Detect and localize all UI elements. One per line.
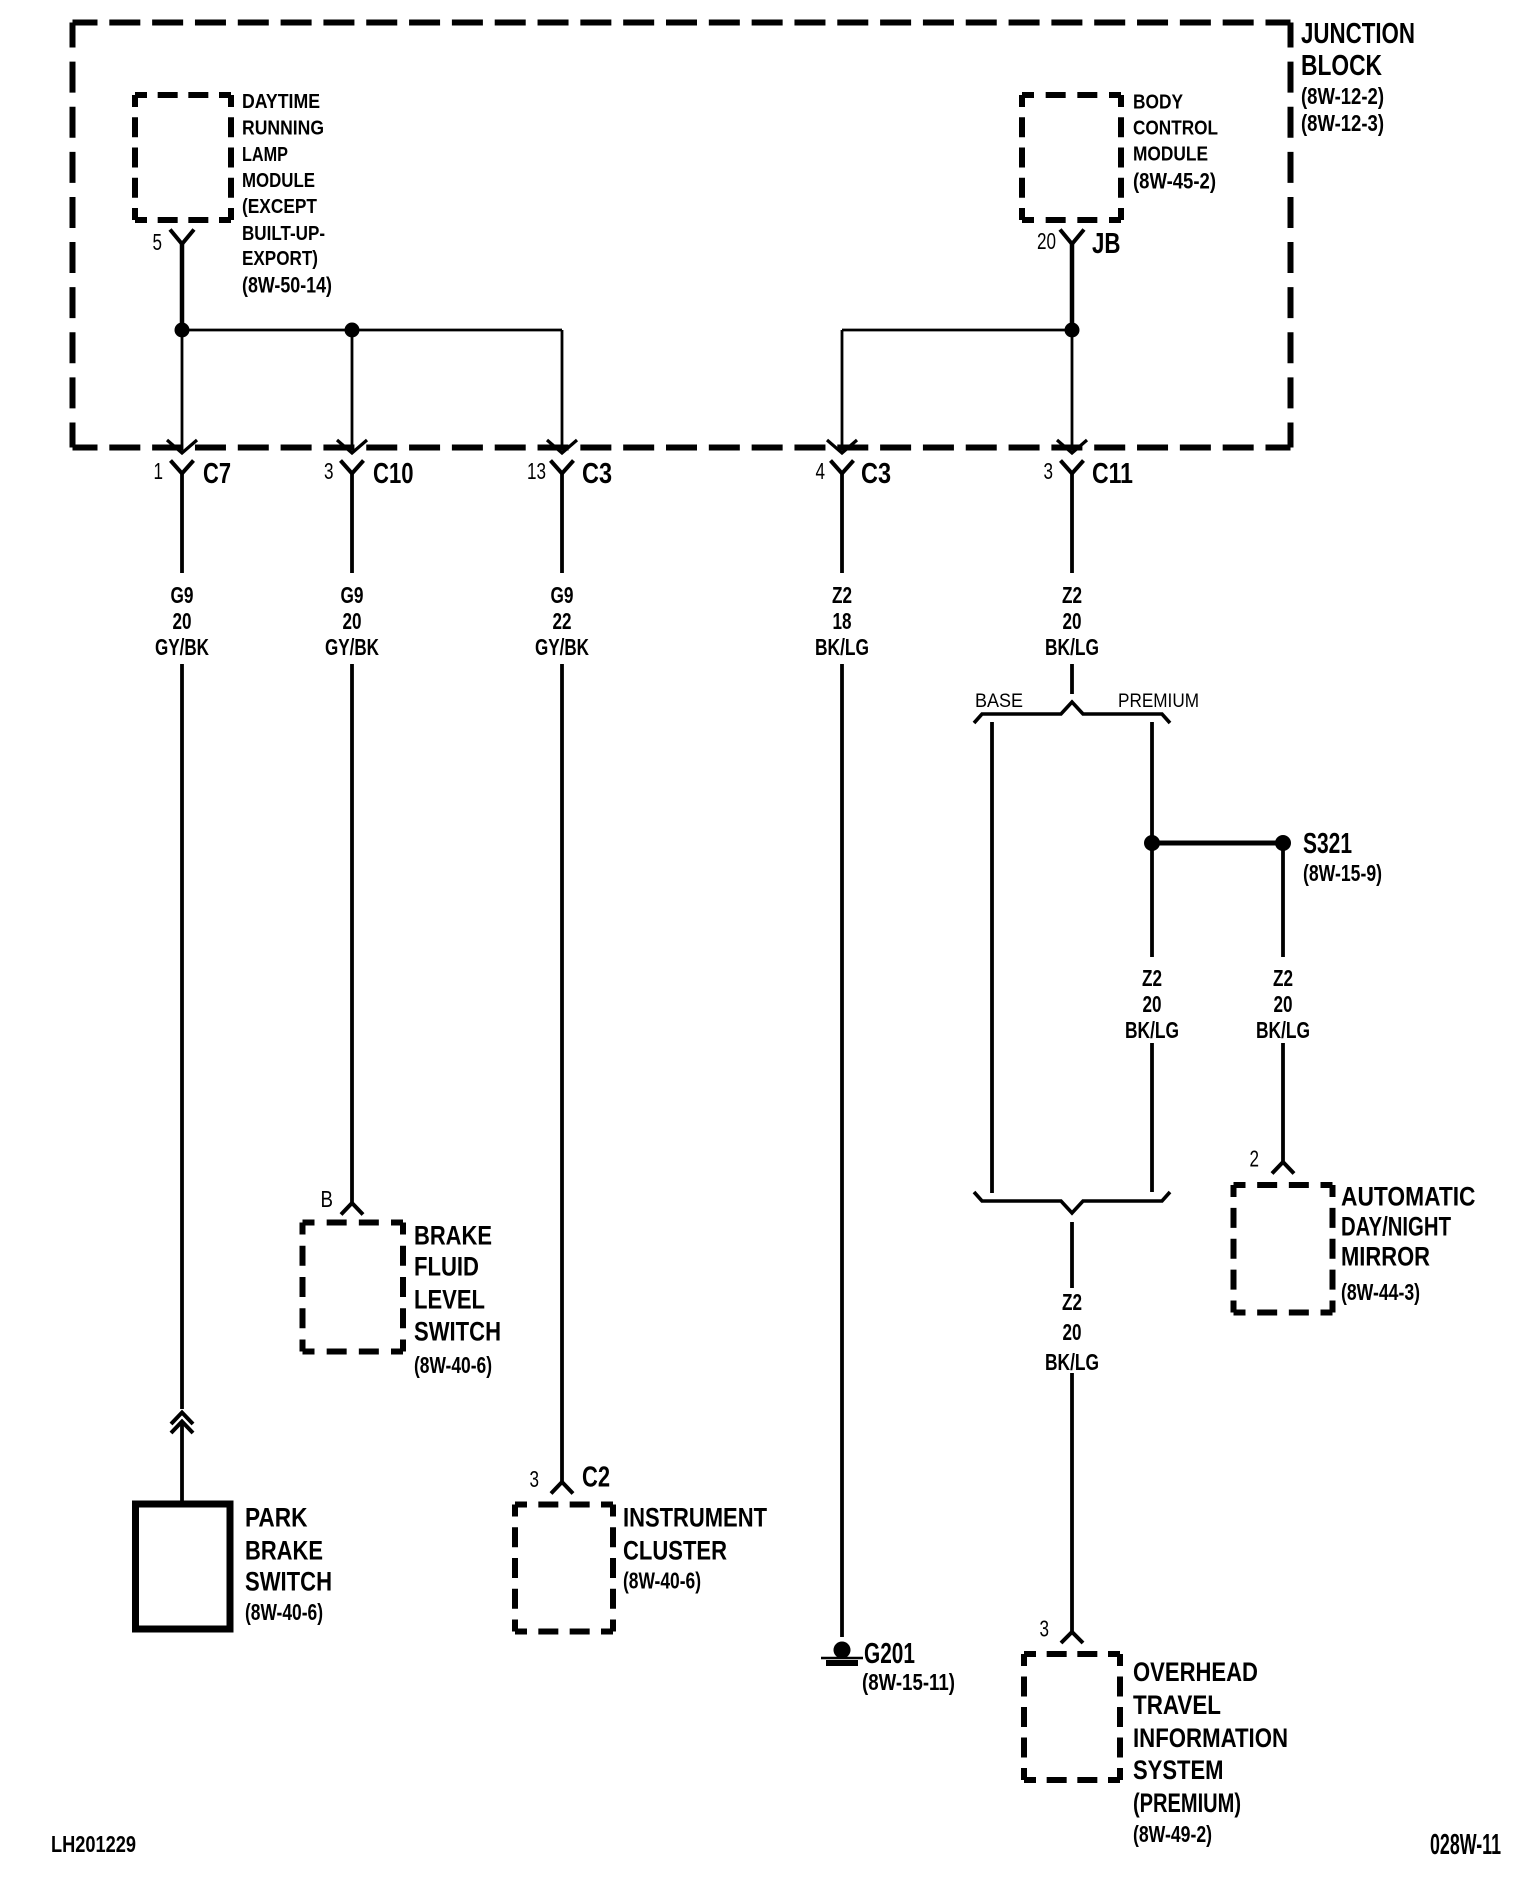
wire label G9 22 GY/BK (C3) bbox=[535, 582, 589, 660]
svg-text:BUILT-UP-: BUILT-UP- bbox=[242, 223, 325, 245]
pin 2 connector mirror bbox=[1250, 1146, 1295, 1174]
svg-text:(EXCEPT: (EXCEPT bbox=[242, 196, 317, 218]
body control module box bbox=[1022, 92, 1121, 98]
connector C3 pin4 bbox=[816, 458, 892, 490]
svg-text:(8W-40-6): (8W-40-6) bbox=[623, 1567, 701, 1593]
svg-text:SYSTEM: SYSTEM bbox=[1133, 1755, 1224, 1785]
brake fluid level switch box bbox=[303, 1220, 404, 1226]
wire label Z2 18 BK/LG bbox=[815, 582, 869, 660]
arrow into connector at x=1072 bbox=[1057, 440, 1087, 453]
automatic day/night mirror label bbox=[1341, 1181, 1476, 1305]
svg-text:20: 20 bbox=[173, 608, 192, 634]
svg-text:EXPORT): EXPORT) bbox=[242, 248, 318, 270]
svg-text:3: 3 bbox=[1044, 458, 1054, 484]
wire merged down bbox=[1070, 1222, 1074, 1288]
pin B connector brake fluid level switch bbox=[321, 1186, 364, 1215]
svg-text:BRAKE: BRAKE bbox=[245, 1535, 323, 1565]
svg-text:13: 13 bbox=[527, 458, 546, 484]
wire label Z2 20 BK/LG (premium) bbox=[1125, 965, 1179, 1043]
splice S321 label bbox=[1303, 828, 1382, 886]
svg-text:TRAVEL: TRAVEL bbox=[1133, 1690, 1221, 1720]
svg-text:SWITCH: SWITCH bbox=[414, 1316, 501, 1346]
connector C11 bbox=[1044, 458, 1134, 490]
wire continues to pin 3 C2 bbox=[560, 664, 564, 1482]
svg-text:LH201229: LH201229 bbox=[51, 1831, 136, 1857]
svg-text:MODULE: MODULE bbox=[1133, 144, 1208, 166]
svg-text:BODY: BODY bbox=[1133, 92, 1184, 114]
svg-text:INFORMATION: INFORMATION bbox=[1133, 1723, 1288, 1753]
wire label G9 20 GY/BK (C10) bbox=[325, 582, 379, 660]
automatic day/night mirror box bbox=[1234, 1182, 1333, 1188]
wire continues to G201 bbox=[840, 664, 844, 1637]
wire continues to base/premium split bbox=[1070, 664, 1074, 694]
svg-text:BRAKE: BRAKE bbox=[414, 1220, 492, 1250]
svg-text:3: 3 bbox=[1040, 1615, 1050, 1641]
splice S321 dot right bbox=[1275, 835, 1291, 851]
svg-text:FLUID: FLUID bbox=[414, 1251, 479, 1281]
svg-text:(PREMIUM): (PREMIUM) bbox=[1133, 1788, 1241, 1818]
svg-text:20: 20 bbox=[1037, 228, 1056, 254]
connector C7 bbox=[154, 458, 232, 490]
svg-text:LAMP: LAMP bbox=[242, 144, 288, 166]
svg-text:C10: C10 bbox=[373, 458, 414, 490]
svg-text:(8W-12-3): (8W-12-3) bbox=[1301, 110, 1384, 136]
svg-text:PARK: PARK bbox=[245, 1502, 308, 1532]
svg-text:20: 20 bbox=[343, 608, 362, 634]
wire drop at x=352 bbox=[351, 330, 354, 450]
pin 3 connector C2 instrument cluster bbox=[530, 1462, 611, 1494]
svg-text:DAY/NIGHT: DAY/NIGHT bbox=[1341, 1211, 1451, 1241]
svg-text:(8W-40-6): (8W-40-6) bbox=[245, 1599, 323, 1625]
svg-text:(8W-45-2): (8W-45-2) bbox=[1133, 168, 1216, 193]
svg-text:BK/LG: BK/LG bbox=[1256, 1017, 1310, 1043]
svg-text:(8W-44-3): (8W-44-3) bbox=[1341, 1279, 1420, 1305]
svg-text:AUTOMATIC: AUTOMATIC bbox=[1341, 1181, 1476, 1211]
svg-text:MODULE: MODULE bbox=[242, 170, 315, 192]
svg-text:Z2: Z2 bbox=[1273, 965, 1293, 991]
wire C3 pin4 to ground: upper segment bbox=[840, 474, 844, 574]
daytime running lamp module box bbox=[135, 92, 231, 98]
svg-text:(8W-15-11): (8W-15-11) bbox=[862, 1669, 955, 1695]
svg-text:G9: G9 bbox=[341, 582, 364, 608]
wire premium left leg upper bbox=[1150, 843, 1154, 957]
svg-text:CLUSTER: CLUSTER bbox=[623, 1535, 727, 1565]
instrument cluster label bbox=[623, 1502, 767, 1593]
svg-text:(8W-15-9): (8W-15-9) bbox=[1303, 860, 1382, 886]
svg-text:C3: C3 bbox=[582, 458, 612, 490]
inline connector chevrons bbox=[171, 1413, 193, 1434]
svg-text:22: 22 bbox=[553, 608, 572, 634]
splice dot left bbox=[175, 323, 190, 338]
wire C10 to brake fluid switch: upper segment bbox=[350, 474, 354, 574]
svg-text:Z2: Z2 bbox=[1142, 965, 1162, 991]
arrow into connector at x=182 bbox=[167, 440, 197, 453]
wire continues to park brake switch bbox=[180, 1423, 184, 1504]
svg-text:SWITCH: SWITCH bbox=[245, 1566, 332, 1596]
svg-text:OVERHEAD: OVERHEAD bbox=[1133, 1657, 1258, 1687]
arrow into connector at x=352 bbox=[337, 440, 367, 453]
svg-text:(8W-40-6): (8W-40-6) bbox=[414, 1352, 492, 1378]
svg-text:4: 4 bbox=[816, 458, 826, 484]
wire C11 down: upper segment bbox=[1070, 474, 1074, 574]
svg-text:S321: S321 bbox=[1303, 828, 1352, 860]
svg-text:MIRROR: MIRROR bbox=[1341, 1241, 1430, 1271]
svg-text:GY/BK: GY/BK bbox=[535, 634, 589, 660]
wire drop at x=182 bbox=[181, 330, 184, 450]
park brake switch label bbox=[245, 1502, 332, 1625]
svg-text:G201: G201 bbox=[864, 1638, 915, 1670]
svg-text:3: 3 bbox=[530, 1466, 540, 1492]
svg-text:C7: C7 bbox=[203, 458, 231, 490]
instrument cluster box bbox=[515, 1502, 613, 1508]
park brake switch box bbox=[136, 1504, 231, 1629]
svg-text:20: 20 bbox=[1143, 991, 1162, 1017]
svg-text:LEVEL: LEVEL bbox=[414, 1284, 485, 1314]
svg-text:PREMIUM: PREMIUM bbox=[1118, 691, 1199, 712]
svg-text:JUNCTION: JUNCTION bbox=[1301, 18, 1415, 50]
connector C10 bbox=[324, 458, 414, 490]
body control module label bbox=[1133, 92, 1218, 194]
overhead travel information system label bbox=[1133, 1657, 1288, 1847]
svg-text:CONTROL: CONTROL bbox=[1133, 118, 1218, 140]
svg-text:DAYTIME: DAYTIME bbox=[242, 91, 320, 113]
svg-text:RUNNING: RUNNING bbox=[242, 118, 324, 140]
svg-text:BK/LG: BK/LG bbox=[815, 634, 869, 660]
wire drop at x=1072 bbox=[1071, 330, 1074, 450]
svg-text:GY/BK: GY/BK bbox=[325, 634, 379, 660]
svg-text:BK/LG: BK/LG bbox=[1045, 634, 1099, 660]
svg-text:Z2: Z2 bbox=[832, 582, 852, 608]
splice S321 dot left bbox=[1144, 835, 1160, 851]
junction block label bbox=[1301, 18, 1415, 136]
pin 5 DRL connector bbox=[153, 229, 195, 255]
svg-text:G9: G9 bbox=[171, 582, 194, 608]
wire C7 to park brake: upper segment bbox=[180, 474, 184, 574]
svg-text:3: 3 bbox=[324, 458, 334, 484]
splice dot mid bbox=[345, 323, 360, 338]
wire premium branch bbox=[1150, 722, 1154, 843]
splice S321 jumper bbox=[1152, 841, 1283, 846]
wire S321 to mirror lower bbox=[1281, 1043, 1285, 1162]
svg-text:INSTRUMENT: INSTRUMENT bbox=[623, 1502, 767, 1532]
daytime running lamp module label bbox=[242, 91, 332, 297]
wire DRL pin5 down bbox=[180, 243, 185, 330]
junction block border bbox=[73, 20, 1291, 26]
svg-text:Z2: Z2 bbox=[1062, 1289, 1082, 1315]
svg-text:B: B bbox=[321, 1186, 334, 1212]
wire BCM pin20 down bbox=[1070, 243, 1075, 330]
svg-text:(8W-12-2): (8W-12-2) bbox=[1301, 83, 1384, 109]
svg-text:2: 2 bbox=[1250, 1146, 1260, 1172]
wire drop at x=842 bbox=[841, 330, 844, 450]
svg-text:GY/BK: GY/BK bbox=[155, 634, 209, 660]
pin 20 JB connector bbox=[1037, 228, 1121, 260]
wire label Z2 20 BK/LG (C11) bbox=[1045, 582, 1099, 660]
svg-text:20: 20 bbox=[1063, 608, 1082, 634]
svg-text:BLOCK: BLOCK bbox=[1301, 50, 1382, 82]
wire label Z2 20 BK/LG (merged) bbox=[1045, 1289, 1099, 1375]
ground G201 bbox=[821, 1638, 955, 1695]
overhead travel information system box bbox=[1024, 1651, 1120, 1657]
svg-text:(8W-49-2): (8W-49-2) bbox=[1133, 1821, 1212, 1847]
svg-text:20: 20 bbox=[1274, 991, 1293, 1017]
svg-text:C3: C3 bbox=[861, 458, 891, 490]
svg-text:1: 1 bbox=[154, 458, 164, 484]
wire C3 to instrument cluster: upper segment bbox=[560, 474, 564, 574]
pin 3 connector overhead travel info bbox=[1040, 1615, 1084, 1643]
svg-text:G9: G9 bbox=[551, 582, 574, 608]
svg-text:BK/LG: BK/LG bbox=[1125, 1017, 1179, 1043]
svg-text:BK/LG: BK/LG bbox=[1045, 1349, 1099, 1375]
connector C3 pin13 bbox=[527, 458, 612, 490]
splice dot right bbox=[1065, 323, 1080, 338]
svg-text:028W-11: 028W-11 bbox=[1430, 1829, 1501, 1861]
wire G9 continues to inline connector bbox=[180, 664, 184, 1409]
svg-text:20: 20 bbox=[1063, 1319, 1082, 1345]
arrow into connector at x=842 bbox=[827, 440, 857, 453]
wire premium left leg lower bbox=[1150, 1043, 1154, 1192]
wire continues to pin B bbox=[350, 664, 354, 1203]
svg-text:Z2: Z2 bbox=[1062, 582, 1082, 608]
svg-text:18: 18 bbox=[833, 608, 852, 634]
base/premium split brace bbox=[974, 702, 1170, 723]
arrow into connector at x=562 bbox=[547, 440, 577, 453]
wire drop at x=562 bbox=[561, 330, 564, 450]
wire horizontal left bus bbox=[182, 329, 562, 332]
svg-text:(8W-50-14): (8W-50-14) bbox=[242, 273, 332, 298]
svg-text:BASE: BASE bbox=[975, 691, 1023, 712]
wire horizontal right bus bbox=[842, 329, 1072, 332]
wire label G9 20 GY/BK (C7) bbox=[155, 582, 209, 660]
svg-text:5: 5 bbox=[153, 229, 163, 255]
svg-text:C2: C2 bbox=[582, 1462, 610, 1494]
wire S321 to mirror upper bbox=[1281, 843, 1285, 957]
svg-text:C11: C11 bbox=[1092, 458, 1133, 490]
merge brace base/premium bbox=[974, 1192, 1170, 1213]
wire continues to overhead pin 3 bbox=[1070, 1373, 1074, 1632]
wire label Z2 20 BK/LG (mirror) bbox=[1256, 965, 1310, 1043]
svg-text:JB: JB bbox=[1092, 228, 1121, 260]
wire base branch bbox=[990, 722, 994, 1193]
brake fluid level switch label bbox=[414, 1220, 501, 1378]
